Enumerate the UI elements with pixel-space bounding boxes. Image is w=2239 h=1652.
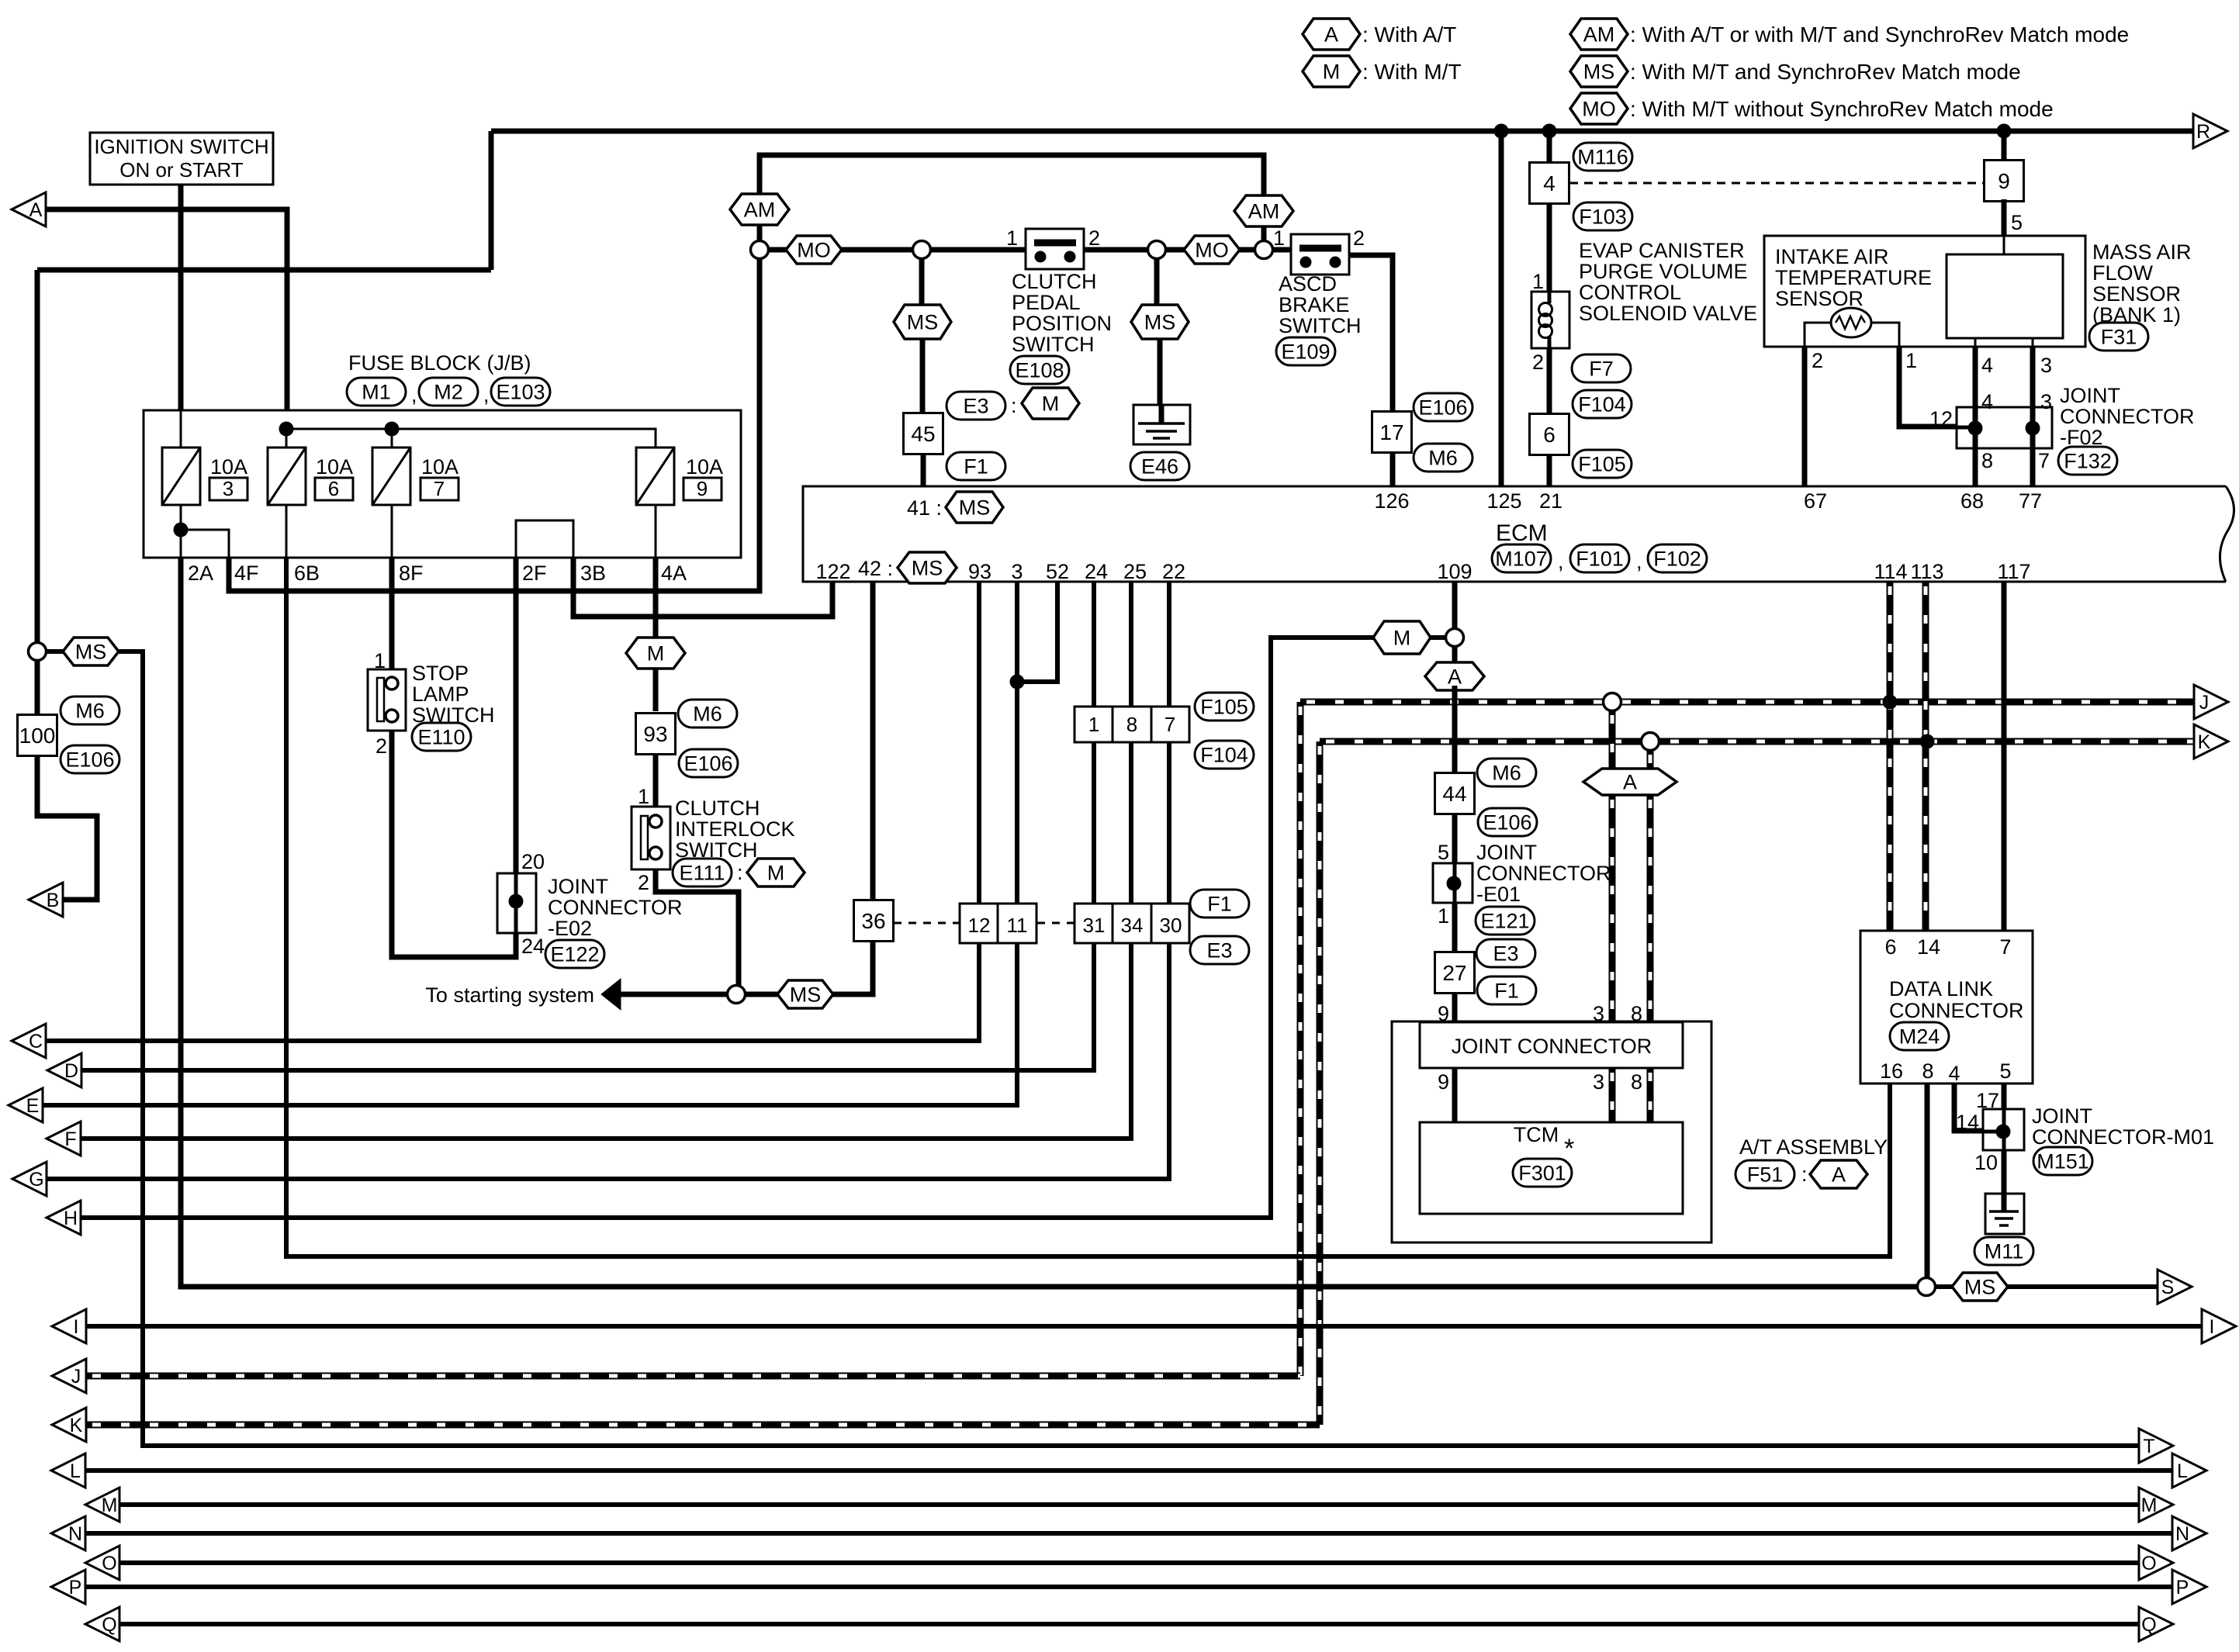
svg-text:F1: F1 <box>964 455 988 479</box>
wire M line <box>119 1502 2139 1507</box>
dashed wire K to A hex <box>1647 750 1654 769</box>
svg-text:20: 20 <box>521 850 545 873</box>
svg-text:122: 122 <box>815 560 850 583</box>
svg-text:5: 5 <box>1999 1059 2011 1083</box>
A hexagon 109 <box>1425 662 1484 690</box>
svg-text:PEDAL: PEDAL <box>1012 291 1081 314</box>
svg-text:F105: F105 <box>1200 696 1248 719</box>
wire 27 to joint connector <box>1452 992 1458 1022</box>
connector F103 <box>1573 202 1632 230</box>
connector box 4 <box>1530 163 1569 204</box>
A/T assembly label <box>1739 1135 1888 1159</box>
svg-text:6B: 6B <box>294 562 320 585</box>
connector F51 <box>1735 1160 1867 1188</box>
svg-text:F: F <box>64 1128 76 1150</box>
svg-text:F31: F31 <box>2101 326 2137 349</box>
svg-text:E122: E122 <box>550 943 599 966</box>
arrow R right <box>2193 114 2227 148</box>
connector box 27 <box>1435 952 1475 994</box>
ASCD brake switch label <box>1279 272 1361 337</box>
svg-text:1: 1 <box>1532 270 1544 293</box>
svg-text:12: 12 <box>968 914 991 937</box>
svg-text:F132: F132 <box>2064 450 2112 473</box>
svg-text:MS: MS <box>1144 311 1176 334</box>
svg-text:77: 77 <box>2019 489 2042 513</box>
label pin 1 pedal <box>1006 226 1018 250</box>
arrow N left <box>51 1516 85 1550</box>
dashed link 36-12 <box>894 922 959 924</box>
wire dlc8 to S circle <box>1925 1083 1930 1278</box>
label pin 122 <box>815 560 850 583</box>
connector E122 <box>545 940 604 968</box>
dashed wire jc to TCM 8 <box>1647 1068 1654 1122</box>
connector box 44 <box>1435 773 1475 814</box>
svg-text:100: 100 <box>19 724 56 748</box>
comma <box>483 383 490 406</box>
svg-text:P: P <box>69 1577 82 1598</box>
clutch interlock switch <box>632 807 670 869</box>
label 8 jc top <box>1631 1002 1642 1025</box>
svg-text:67: 67 <box>1804 489 1827 513</box>
label 17 m01 <box>1976 1089 1999 1112</box>
junction circle S <box>1918 1278 1936 1296</box>
label 1 interlock <box>638 785 649 808</box>
svg-text:E3: E3 <box>1493 942 1518 966</box>
junction circle node1 <box>751 241 769 259</box>
junction circle node4 <box>1255 241 1273 259</box>
svg-text:SOLENOID VALVE: SOLENOID VALVE <box>1579 302 1757 325</box>
connector box 36 <box>854 900 894 942</box>
wire fuse6 bottom <box>285 505 288 558</box>
arrow O left <box>85 1546 119 1580</box>
svg-text:14: 14 <box>1956 1111 1979 1134</box>
svg-text:22: 22 <box>1162 560 1185 583</box>
data link connector label <box>1889 977 2024 1022</box>
svg-text:F102: F102 <box>1653 548 1701 571</box>
wire fuse7 top <box>391 429 393 448</box>
wire MS to T-line <box>44 651 2139 1446</box>
svg-text:F51: F51 <box>1747 1163 1784 1187</box>
svg-text:O: O <box>102 1553 116 1574</box>
arrow D left <box>47 1053 81 1087</box>
wire MS circle to 100 <box>35 660 40 715</box>
connector M116 <box>1573 143 1632 171</box>
svg-text:42 :: 42 : <box>858 557 893 580</box>
label 20 <box>521 850 545 873</box>
arrow L left <box>51 1453 85 1488</box>
connector box 100 <box>18 715 57 756</box>
svg-text:6: 6 <box>1543 423 1556 447</box>
wire maf5 inner <box>2003 236 2005 254</box>
svg-text:E106: E106 <box>683 752 732 776</box>
label pin 125 <box>1486 489 1521 513</box>
connector E46 <box>1130 452 1189 480</box>
svg-text:E3: E3 <box>1206 939 1232 963</box>
wire IAT pin2 to ECM 67 <box>1802 347 1808 486</box>
wire 52 joins 3 <box>1017 582 1057 682</box>
label pin 5 maf <box>2011 211 2023 234</box>
dashed J line top <box>1300 699 2196 706</box>
svg-text:SENSOR: SENSOR <box>2092 282 2181 306</box>
stop lamp switch label <box>412 662 494 727</box>
svg-text:6: 6 <box>328 477 339 500</box>
svg-text:F103: F103 <box>1579 206 1627 229</box>
junction circle node3 <box>1148 241 1166 259</box>
wire f02 7 to ECM 77 <box>2030 428 2036 486</box>
svg-text:*: * <box>1564 1134 1574 1163</box>
wire O line <box>119 1560 2139 1565</box>
label 1 iat <box>1905 349 1917 372</box>
svg-text:1: 1 <box>1273 226 1285 250</box>
svg-text:MO: MO <box>1195 239 1229 262</box>
svg-text:P: P <box>2176 1577 2189 1598</box>
svg-text:M1: M1 <box>362 381 391 404</box>
clutch interlock switch label <box>675 797 795 862</box>
fuse bus wire <box>286 429 656 448</box>
connector box 31-34-30 <box>1075 904 1189 943</box>
evap label <box>1579 239 1757 325</box>
svg-text:M: M <box>767 862 785 885</box>
svg-text:MO: MO <box>1582 98 1616 121</box>
wire node4 to ASCD <box>1272 247 1291 253</box>
svg-text:41 :: 41 : <box>907 496 942 520</box>
svg-text:K: K <box>2198 731 2211 753</box>
stop lamp switch <box>368 669 406 731</box>
svg-text:A: A <box>1832 1163 1846 1187</box>
arrow I right <box>2202 1309 2236 1343</box>
arrow M right <box>2139 1488 2173 1522</box>
label pin 117 <box>1997 560 2030 583</box>
connector box 12-11 <box>960 904 1036 943</box>
svg-text:24: 24 <box>521 935 545 958</box>
svg-text:FLOW: FLOW <box>2092 261 2154 285</box>
MO hexagon 1 <box>786 236 842 264</box>
connector M24 <box>1890 1022 1949 1050</box>
svg-text:6: 6 <box>1884 935 1896 959</box>
svg-text:1: 1 <box>1006 226 1018 250</box>
MO hexagon 2 <box>1184 236 1240 264</box>
svg-text:2: 2 <box>1532 351 1544 374</box>
svg-text:109: 109 <box>1437 560 1472 583</box>
svg-text:Q: Q <box>102 1614 116 1636</box>
connector F7 <box>1572 354 1631 382</box>
wire ignition to fuse3 <box>180 410 182 448</box>
svg-text:M: M <box>2141 1495 2158 1516</box>
legend option M hexagon <box>1303 56 1462 87</box>
label pin 109 <box>1437 560 1472 583</box>
wire dlc4 to M01 <box>1954 1083 1983 1131</box>
connector F1 (31) <box>1190 890 1249 918</box>
svg-text:A: A <box>29 199 43 221</box>
ECM pin 41 MS <box>907 492 1003 523</box>
MS hexagon S <box>1952 1273 2008 1301</box>
label pin 126 <box>1374 489 1409 513</box>
joint connector F02 label <box>2060 384 2195 449</box>
wire 45 to ECM <box>921 454 926 486</box>
svg-text:CLUTCH: CLUTCH <box>675 797 760 820</box>
svg-text:C: C <box>29 1031 43 1052</box>
wire 6B to DLC16 line <box>286 558 1890 1256</box>
arrow Q left <box>85 1607 119 1641</box>
wire M to H-line <box>81 638 1445 1218</box>
connector F104 (6) <box>1573 390 1632 418</box>
connector box 6 <box>1530 414 1569 455</box>
svg-text:BRAKE: BRAKE <box>1279 293 1350 316</box>
svg-text:93: 93 <box>643 722 667 746</box>
svg-text:JOINT CONNECTOR: JOINT CONNECTOR <box>1452 1035 1652 1058</box>
svg-text:: With M/T: : With M/T <box>1362 60 1462 84</box>
wire L line <box>85 1468 2172 1473</box>
svg-text:8: 8 <box>1922 1059 1933 1083</box>
ASCD brake switch <box>1291 234 1349 275</box>
wire Q line <box>119 1622 2139 1626</box>
junction circle starting <box>728 986 746 1004</box>
svg-text:8: 8 <box>1126 713 1137 736</box>
wire fuse9 bottom <box>655 505 657 558</box>
connector E109 <box>1276 337 1335 365</box>
svg-text:2: 2 <box>1088 226 1100 250</box>
svg-text:CONNECTOR: CONNECTOR <box>1889 999 2024 1022</box>
label 3 maf <box>2040 354 2052 377</box>
svg-text:44: 44 <box>1442 782 1466 806</box>
svg-text:126: 126 <box>1374 489 1409 513</box>
svg-text:,: , <box>411 383 417 406</box>
label dlc 7 <box>1999 935 2011 959</box>
svg-text:117: 117 <box>1997 560 2030 583</box>
svg-text:M: M <box>1042 392 1060 416</box>
svg-text:2: 2 <box>1353 226 1365 250</box>
label pin 77 <box>2019 489 2042 513</box>
connector F31 <box>2089 323 2148 351</box>
mass air flow sensor label <box>2092 240 2192 327</box>
svg-text:LAMP: LAMP <box>412 683 469 706</box>
dashed J branch vertical <box>1297 702 1304 1376</box>
connector M2 <box>419 378 478 406</box>
label pin 3 <box>1011 560 1023 583</box>
svg-text:F104: F104 <box>1200 744 1248 767</box>
wire jc to TCM 9 <box>1452 1068 1458 1122</box>
arrow G left <box>12 1162 47 1196</box>
svg-text::: : <box>737 861 743 884</box>
intake air temperature sensor label <box>1775 245 1932 310</box>
dashed link 11-31 <box>1037 922 1074 924</box>
svg-text:E109: E109 <box>1281 340 1330 364</box>
starting system arrowhead <box>601 979 621 1010</box>
label 6B <box>294 562 320 585</box>
label pin 21 <box>1539 489 1562 513</box>
svg-text:E111: E111 <box>679 862 725 885</box>
wire N line <box>85 1531 2172 1536</box>
dashed wire jc to TCM 3 <box>1609 1068 1616 1122</box>
wire dlc5 to M01 <box>2002 1083 2007 1109</box>
dashed wire 3 to jc <box>1609 795 1616 1022</box>
svg-text:F104: F104 <box>1578 393 1626 416</box>
svg-text:J: J <box>71 1366 81 1388</box>
arrow J left <box>52 1359 86 1393</box>
svg-text:INTERLOCK: INTERLOCK <box>675 817 795 841</box>
dashed K branch vertical <box>1317 741 1324 1425</box>
svg-text:CONNECTOR-M01: CONNECTOR-M01 <box>2032 1125 2214 1149</box>
svg-text:125: 125 <box>1486 489 1521 513</box>
label dlc 8 <box>1922 1059 1933 1083</box>
wire fuse3 bottom <box>180 505 182 558</box>
svg-text:4: 4 <box>1981 354 1993 377</box>
joint connector M01 box <box>1983 1109 2024 1150</box>
svg-text:I: I <box>2210 1316 2215 1338</box>
wire fuse6 top <box>285 429 288 448</box>
fuse 9 10A <box>636 448 723 505</box>
svg-text:J: J <box>2199 692 2210 714</box>
svg-text:A: A <box>1623 771 1637 794</box>
A hexagon dlc <box>1583 769 1677 795</box>
junction circle 109 <box>1446 629 1464 647</box>
svg-text:52: 52 <box>1046 560 1069 583</box>
wire I line <box>86 1324 2202 1329</box>
svg-text:7: 7 <box>2038 449 2050 472</box>
wire branch 4F <box>181 530 229 558</box>
wire P line <box>85 1585 2172 1589</box>
label pin 1 ascd <box>1273 226 1285 250</box>
junction dot K-113 <box>1920 734 1935 749</box>
svg-text:CONNECTOR: CONNECTOR <box>1476 862 1611 885</box>
wire MS2 to ground <box>1158 339 1163 420</box>
connector M6 (44) <box>1477 759 1536 786</box>
connector box 9 <box>1985 161 2024 202</box>
svg-text:-E01: -E01 <box>1476 883 1521 906</box>
wire maf3 to F02 <box>2030 347 2036 428</box>
connector M151 <box>2033 1147 2092 1175</box>
connector E103 <box>491 378 550 406</box>
svg-text:CONTROL: CONTROL <box>1579 281 1681 304</box>
svg-text:7: 7 <box>1164 713 1175 736</box>
label 8 f02 <box>1981 449 1993 472</box>
label 3B <box>580 562 606 585</box>
wire 3 to E <box>43 582 1017 1105</box>
wire 117 <box>2002 582 2007 931</box>
dashed wire J to A hex <box>1609 710 1616 769</box>
fuse 7 10A <box>372 448 459 505</box>
wire M01 to ground <box>2002 1150 2007 1211</box>
wire ASCD to ECM 126 <box>1349 255 1393 413</box>
ground E46 <box>1133 405 1190 444</box>
dashed wire 113 <box>1922 582 1929 931</box>
wire 93box to interlock <box>653 755 659 807</box>
label pin 93 <box>968 560 991 583</box>
connector E111 <box>673 859 805 886</box>
connector M1 <box>347 378 406 406</box>
wire node2 to pedal switch <box>930 247 1026 253</box>
wire 4A M to 93box <box>653 669 659 711</box>
label pin 2 ascd <box>1353 226 1365 250</box>
svg-text:F1: F1 <box>1207 893 1232 916</box>
svg-text:T: T <box>2143 1436 2154 1457</box>
arrow S right <box>2158 1270 2192 1304</box>
svg-text:: With M/T without SynchroRev: : With M/T without SynchroRev Match mode <box>1630 97 2054 121</box>
svg-text:M2: M2 <box>434 381 463 404</box>
label 2 interlock <box>638 871 649 894</box>
label pin 2 evap <box>1532 351 1544 374</box>
arrow K right <box>2194 724 2228 759</box>
svg-text:S: S <box>2161 1277 2175 1298</box>
svg-text:24: 24 <box>1085 560 1108 583</box>
wire A hex to 44 <box>1452 690 1458 773</box>
svg-text:-E02: -E02 <box>548 917 592 940</box>
svg-text:M6: M6 <box>1492 762 1521 785</box>
MAF outer box <box>1764 236 2085 347</box>
connector F101 <box>1570 544 1629 572</box>
wire 4A down <box>653 558 659 637</box>
connector E106 (44) <box>1478 808 1537 836</box>
svg-text:M: M <box>102 1495 118 1516</box>
svg-text:2A: 2A <box>188 562 213 585</box>
svg-text:SENSOR: SENSOR <box>1775 287 1864 310</box>
svg-text:45: 45 <box>911 422 935 446</box>
junction dot fuse3-4F <box>174 523 189 537</box>
connector E110 <box>412 723 471 751</box>
svg-text:93: 93 <box>968 560 991 583</box>
svg-text:M: M <box>1323 60 1341 84</box>
svg-text:E121: E121 <box>1480 910 1529 933</box>
label pin 1 evap <box>1532 270 1544 293</box>
svg-text:11: 11 <box>1007 914 1028 937</box>
wire 2A to S-line <box>181 558 1918 1287</box>
svg-text:1: 1 <box>1438 904 1449 928</box>
label pin 25 <box>1123 560 1147 583</box>
label pin 2 pedal <box>1088 226 1100 250</box>
arrow P left <box>51 1570 85 1604</box>
wire 125 riser <box>1499 131 1504 486</box>
label 3 jc bot <box>1593 1070 1604 1094</box>
svg-text:8: 8 <box>1631 1002 1642 1025</box>
label pin 114 <box>1874 560 1907 583</box>
svg-text:MS: MS <box>75 641 107 664</box>
svg-text:POSITION: POSITION <box>1012 312 1112 335</box>
connector F105 (6) <box>1573 450 1632 478</box>
ECM pin 42 MS <box>858 552 957 583</box>
wire 9 to MAF <box>2002 199 2007 236</box>
svg-text:8: 8 <box>1981 449 1993 472</box>
svg-text:EVAP CANISTER: EVAP CANISTER <box>1579 239 1745 262</box>
dashed J line bottom <box>86 1373 1300 1380</box>
junction dot J-114 <box>1883 695 1898 710</box>
svg-text:ON or START: ON or START <box>119 158 244 181</box>
svg-text:PURGE VOLUME: PURGE VOLUME <box>1579 260 1748 283</box>
svg-text:H: H <box>64 1208 78 1229</box>
arrow C left <box>12 1024 46 1058</box>
wire to starting system <box>619 992 728 997</box>
wire patch 109 wire at J/K lines <box>1452 686 1458 757</box>
wire 22 to G <box>47 582 1169 1179</box>
svg-text:4F: 4F <box>234 562 259 585</box>
M hexagon 109 <box>1373 621 1431 654</box>
svg-text:D: D <box>64 1060 78 1082</box>
junction circle K-8 <box>1642 733 1659 751</box>
label pin 52 <box>1046 560 1069 583</box>
svg-text:2: 2 <box>375 734 387 758</box>
wire R to 4-box <box>1547 131 1552 162</box>
connector E3 (31) <box>1190 936 1249 964</box>
legend option A hexagon <box>1303 19 1456 50</box>
MS hexagon starting <box>777 980 833 1008</box>
svg-text:10A: 10A <box>421 455 459 479</box>
svg-text:E103: E103 <box>496 381 545 404</box>
connector E3 (45) <box>946 392 1005 420</box>
joint connector E02 label <box>548 875 683 940</box>
svg-text:4: 4 <box>1948 1062 1960 1085</box>
wire 6-box to ECM <box>1547 455 1552 486</box>
junction dot f02 b <box>2026 421 2040 436</box>
label pin 68 <box>1960 489 1984 513</box>
